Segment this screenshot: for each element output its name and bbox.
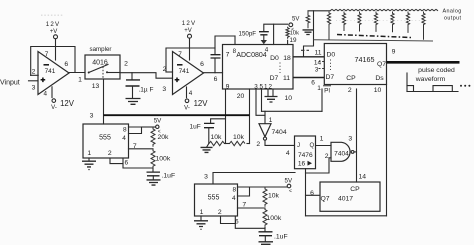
feedback wire U3 (166, 48, 215, 72)
wire divider mid (225, 143, 230, 145)
ladder bottom solid wire (314, 40, 434, 41)
minus mark (44, 64, 50, 66)
svg-text:12V: 12V (194, 99, 209, 108)
svg-text:2: 2 (325, 153, 329, 160)
svg-text:Q7: Q7 (320, 195, 329, 202)
ground stubs pins 1 2 (268, 89, 273, 96)
svg-text:4017: 4017 (338, 195, 353, 202)
150pF top wire (264, 24, 288, 31)
svg-text:CP: CP (346, 75, 356, 82)
pin 7 wire (129, 148, 154, 150)
pin 4 wire (51, 87, 53, 98)
svg-text:D7: D7 (270, 75, 279, 82)
capacitor C2 lower lead (214, 58, 216, 73)
svg-text:10k: 10k (290, 31, 299, 37)
svg-text:2: 2 (124, 61, 128, 68)
V- terminal circle (185, 99, 189, 103)
pin 4 wire (186, 87, 188, 98)
svg-text:2: 2 (32, 69, 36, 76)
svg-text:12V: 12V (60, 99, 75, 108)
Ds net bottom wire (306, 215, 387, 217)
timer U7 output wire (213, 173, 295, 185)
svg-text:1: 1 (269, 117, 273, 124)
svg-text:100k: 100k (267, 215, 282, 222)
wire PL vertical to 74165 pin1 (321, 89, 323, 111)
Q7 output thick wire (387, 61, 460, 64)
wire PL net horizontal (262, 110, 323, 112)
svg-text:6: 6 (200, 61, 204, 68)
svg-text:74165: 74165 (355, 55, 375, 64)
ladder resistor 7 (422, 12, 425, 40)
timer U7 555 box (195, 184, 238, 216)
pin 2 wire (221, 216, 236, 224)
SECTION: logic (256, 85, 386, 216)
svg-text:Vinput: Vinput (0, 80, 20, 87)
SECTION: second buffer (162, 20, 235, 111)
resistor R 100k (151, 149, 155, 169)
svg-text:7404: 7404 (334, 150, 349, 157)
plus mark (175, 78, 180, 83)
minus mark (177, 64, 183, 66)
svg-text:V-: V- (51, 105, 57, 111)
pin 6 wire (235, 216, 265, 228)
svg-text:Q: Q (310, 143, 315, 149)
svg-text:5V: 5V (154, 117, 162, 124)
switch arm (89, 65, 108, 73)
pin 1 wire (88, 158, 90, 161)
Ds net left vertical (305, 169, 307, 216)
svg-text:7476: 7476 (298, 152, 313, 159)
ground G6 (82, 161, 96, 167)
wire 4016 out (120, 73, 173, 79)
ladder resistor 2 (342, 12, 345, 32)
svg-text:V-: V- (184, 105, 190, 111)
pin 3 stub (29, 80, 39, 82)
svg-text:6: 6 (214, 76, 218, 83)
SECTION: timers (82, 113, 295, 245)
SECTION: ladder (303, 9, 462, 57)
vref wire pin9 down (225, 89, 227, 144)
ladder top wire wavy part (330, 9, 438, 10)
svg-text:1: 1 (78, 76, 82, 83)
svg-text:12V: 12V (46, 21, 61, 28)
ladder resistor 4 (374, 12, 377, 32)
ground G7 (147, 180, 161, 185)
capacitor C5 .1uF plates (147, 172, 161, 176)
timer U6 555 box (83, 124, 129, 158)
svg-text:Q7: Q7 (377, 61, 386, 68)
ladder resistor 6 (406, 12, 409, 33)
ground G2 (265, 97, 278, 103)
svg-text:1: 1 (320, 135, 324, 142)
resistor R 10k a horizontal (209, 141, 225, 145)
svg-text:.1uF: .1uF (162, 172, 176, 179)
svg-text:4: 4 (286, 150, 290, 157)
5V terminal circle (156, 125, 159, 128)
dash marks on D0 (301, 49, 309, 51)
svg-text:D7: D7 (326, 74, 335, 81)
svg-text:150pF: 150pF (239, 30, 257, 37)
ladder left resistor to ground (306, 11, 310, 29)
capacitor C2 upper wire to pin8 (215, 36, 235, 55)
switch control dashed (102, 67, 104, 80)
pin 6 wire (123, 158, 153, 168)
wire pin7 supply (55, 39, 57, 60)
wire divider right (247, 143, 250, 145)
svg-text:11: 11 (314, 49, 321, 56)
resistor R 10k to pin19 (286, 27, 289, 39)
SECTION: sampler (85, 46, 173, 124)
5V wire timer1 (142, 126, 156, 128)
capacitor C1 .1uF plates (126, 80, 141, 86)
capacitor C4 1uF plates (204, 123, 215, 127)
faint ladder noise (336, 20, 428, 22)
svg-text:D0: D0 (327, 52, 336, 59)
svg-text:20: 20 (237, 93, 245, 100)
svg-text:9: 9 (392, 48, 396, 55)
counter U11 4017 box (320, 182, 380, 211)
capacitor C1 lead (131, 73, 133, 80)
gate output link (354, 151, 357, 153)
svg-text:7404: 7404 (272, 129, 287, 136)
shift register U5 74165 box (324, 44, 386, 85)
svg-text:18: 18 (283, 55, 291, 62)
feedback wire U1 (31, 47, 75, 76)
wire D0 (293, 56, 324, 58)
waveform baseline (407, 91, 458, 93)
svg-text:1: 1 (87, 150, 91, 157)
SECTION: shift register (293, 44, 470, 95)
svg-text:6: 6 (310, 190, 314, 197)
svg-text:6: 6 (311, 79, 315, 86)
ladder resistor 5 (391, 12, 394, 33)
ladder top wire straight part (308, 10, 330, 12)
svg-text:waveform: waveform (415, 76, 446, 83)
ground G3 (303, 30, 314, 35)
capacitor C2 plates (211, 55, 221, 58)
svg-text:10k: 10k (268, 192, 280, 199)
pin 2 wire (110, 158, 123, 164)
svg-text:10k: 10k (233, 134, 245, 141)
CP net vertical (356, 89, 358, 182)
pin 8 wire (234, 36, 236, 45)
svg-text:10k: 10k (211, 134, 223, 141)
svg-text:12V: 12V (182, 20, 197, 27)
C5 lower lead (152, 176, 154, 180)
svg-text:2: 2 (218, 209, 222, 216)
svg-text:sampler: sampler (89, 46, 111, 53)
svg-text:<: < (289, 188, 292, 194)
svg-text:CP: CP (350, 186, 360, 193)
svg-text:3: 3 (32, 85, 36, 92)
pin 3 wire (256, 89, 265, 115)
svg-text:3: 3 (162, 86, 166, 93)
pin 2 stub (31, 74, 39, 76)
output wire U1 to sampler (69, 72, 85, 74)
pin 2 stub (166, 71, 173, 73)
flip-flop U9 7476 box (295, 136, 316, 169)
resistor R 10k b horizontal (230, 141, 246, 145)
svg-text:Ds: Ds (375, 75, 384, 82)
ground G8 (194, 221, 208, 227)
ladder dash-dot wire (337, 35, 411, 38)
svg-text:555: 555 (208, 194, 220, 201)
switch contact left (88, 72, 90, 74)
pin 20 wire (249, 89, 251, 144)
svg-text:741: 741 (179, 68, 190, 75)
svg-text:7: 7 (226, 52, 230, 59)
svg-text:D0: D0 (270, 55, 279, 62)
svg-text:555: 555 (99, 134, 111, 141)
svg-text:Analog: Analog (443, 9, 462, 15)
ground G5 (207, 144, 209, 148)
svg-text:100k: 100k (156, 155, 171, 162)
capacitor C6 .1uF plates (259, 232, 273, 236)
inverter bubble (263, 137, 266, 140)
V- terminal circle (52, 99, 56, 103)
waveform pulse 2 (433, 86, 452, 92)
gate input 2 wire (306, 158, 332, 173)
ladder resistor 3 (358, 12, 361, 32)
pins 8 4 bracket (238, 187, 250, 196)
op-amp U1 741 triangle (38, 52, 69, 95)
gate U10 7404 body (331, 142, 350, 161)
supply terminal circle (54, 35, 58, 39)
svg-text:1: 1 (200, 209, 204, 216)
ground arrow (261, 40, 267, 44)
svg-text:1uF: 1uF (190, 124, 201, 131)
svg-text:2: 2 (108, 150, 112, 157)
switch U2 4016 box (85, 55, 120, 79)
vref cap jog (211, 119, 226, 123)
waveform dots (460, 85, 462, 87)
switch contact right (106, 71, 108, 73)
svg-text:1: 1 (317, 85, 321, 92)
svg-text:4: 4 (232, 195, 236, 202)
svg-text:4: 4 (43, 90, 47, 97)
ground G9 (259, 242, 274, 245)
svg-text:.1uF: .1uF (274, 233, 288, 240)
svg-text:2: 2 (348, 87, 352, 94)
svg-text:14: 14 (314, 59, 322, 66)
pin 13 wire to 555 (103, 79, 105, 124)
pin 19 wire (287, 40, 289, 44)
svg-text:ADC0804: ADC0804 (236, 52, 266, 59)
svg-text:4: 4 (122, 135, 126, 142)
C6 lower lead (264, 236, 266, 242)
svg-text:pulse coded: pulse coded (418, 67, 455, 74)
wire Q to gate (316, 145, 332, 147)
svg-text:+V: +V (184, 28, 192, 34)
ADC U4 box (223, 45, 294, 90)
svg-text:3: 3 (90, 113, 94, 120)
5V terminal circle (289, 23, 293, 27)
svg-text:13: 13 (92, 83, 100, 90)
C4 lower lead (208, 128, 210, 144)
switch output wire inside (107, 72, 120, 74)
clock mark (308, 161, 313, 166)
svg-text:14: 14 (359, 173, 367, 180)
svg-text:10: 10 (285, 95, 293, 102)
inverter U8 7404 triangle (259, 124, 271, 137)
dash stub b (319, 68, 325, 70)
svg-text:20k: 20k (158, 134, 170, 141)
resistor R 20k (151, 127, 155, 147)
svg-text:741: 741 (45, 68, 56, 75)
150pF lower lead (263, 35, 265, 40)
pins 8 4 bracket (129, 127, 142, 134)
plus mark (41, 78, 46, 83)
svg-text:Pl: Pl (324, 88, 330, 95)
dotted bus inside (330, 60, 332, 71)
SECTION: adc (190, 17, 300, 153)
svg-text:5V: 5V (292, 17, 299, 23)
waveform pulse 1 (407, 86, 414, 92)
resistor R 100k timer2 (263, 208, 267, 227)
svg-text:8: 8 (232, 186, 236, 193)
svg-text:6: 6 (64, 61, 68, 68)
output wire U3 to ADC (204, 72, 223, 74)
supply terminal circle (188, 34, 192, 38)
gate bubble (351, 151, 354, 154)
pin 5 wire (261, 89, 263, 111)
5V wire timer2 (250, 186, 288, 188)
svg-text:4: 4 (189, 90, 193, 97)
wire inverter input (264, 111, 266, 123)
svg-text:10: 10 (374, 87, 382, 94)
capacitor C5 lead (152, 169, 154, 172)
capacitor C1 lower lead (132, 86, 134, 98)
pin 4 wire (273, 24, 275, 44)
pin 7 wire (238, 207, 266, 209)
svg-text:output: output (444, 16, 461, 22)
wire pin7 supply (189, 38, 191, 60)
bus wire 555 output (104, 114, 250, 116)
op-amp U3 741 triangle (173, 52, 204, 95)
svg-text:2: 2 (163, 66, 167, 73)
ladder resistor 1 (327, 12, 330, 40)
capacitor C6 lead (264, 228, 266, 232)
4017 pin 6 wire (306, 194, 321, 196)
svg-text:3: 3 (348, 135, 352, 142)
dotted bus inside (279, 63, 281, 74)
wire D7 (293, 77, 324, 79)
svg-text:6: 6 (124, 159, 128, 166)
svg-text:19: 19 (290, 37, 298, 44)
150pF plates (259, 32, 269, 35)
svg-text:.1µ F: .1µ F (139, 87, 154, 94)
ground G1 (126, 99, 141, 105)
svg-text:16: 16 (298, 161, 306, 168)
svg-text:4: 4 (265, 46, 269, 53)
SECTION: left input buffer (0, 21, 85, 111)
svg-text:2: 2 (256, 141, 260, 148)
svg-text:3: 3 (204, 173, 208, 180)
dash stub a (319, 61, 325, 63)
svg-text:5V: 5V (285, 177, 293, 184)
pin 1 wire (200, 216, 202, 221)
svg-text:8: 8 (123, 126, 127, 133)
waveform axis tick (406, 73, 408, 92)
5V terminal circle (287, 184, 291, 188)
svg-text:3: 3 (315, 66, 319, 73)
faint scan streak (41, 14, 64, 16)
svg-text:J: J (297, 143, 300, 149)
resistor R 10k timer2 (263, 187, 267, 207)
svg-text:9: 9 (226, 84, 230, 91)
Ds net vertical (386, 85, 388, 216)
ladder tap to D0 (304, 11, 314, 57)
svg-text:+V: +V (50, 29, 58, 35)
wire inverter output to 7476 (265, 140, 295, 145)
svg-text:11: 11 (283, 75, 290, 82)
